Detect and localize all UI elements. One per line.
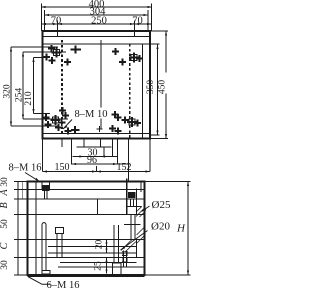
- svg-text:210: 210: [24, 91, 34, 106]
- svg-text:8–M 16: 8–M 16: [9, 163, 42, 174]
- svg-text:6–M 16: 6–M 16: [47, 280, 80, 289]
- svg-text:C: C: [0, 242, 10, 249]
- svg-text:B: B: [0, 202, 10, 208]
- svg-text:H: H: [176, 223, 186, 235]
- svg-text:150: 150: [55, 162, 70, 173]
- svg-text:25: 25: [94, 261, 104, 271]
- svg-text:Ø25: Ø25: [152, 199, 171, 211]
- svg-text:Ø20: Ø20: [151, 221, 170, 233]
- svg-text:96: 96: [87, 155, 97, 166]
- svg-text:30: 30: [0, 260, 10, 270]
- svg-text:152: 152: [117, 162, 132, 173]
- svg-text:20: 20: [95, 240, 105, 250]
- svg-text:70: 70: [132, 15, 143, 26]
- svg-text:A: A: [0, 189, 10, 197]
- svg-text:70: 70: [51, 15, 62, 26]
- svg-text:350: 350: [146, 80, 156, 95]
- svg-text:50: 50: [0, 219, 10, 229]
- svg-text:250: 250: [91, 15, 107, 26]
- svg-text:30: 30: [0, 177, 10, 187]
- svg-text:8–M 10: 8–M 10: [75, 109, 108, 120]
- svg-text:320: 320: [2, 84, 12, 99]
- svg-text:254: 254: [14, 88, 24, 103]
- svg-text:450: 450: [157, 80, 167, 95]
